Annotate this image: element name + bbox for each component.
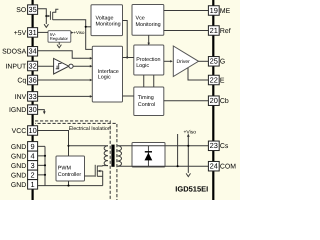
wire GND pin 3 stub [38, 164, 45, 166]
node GND bus dots [44, 155, 46, 157]
svg-text:Logic: Logic [98, 74, 111, 80]
svg-text:19: 19 [210, 6, 218, 15]
svg-text:21: 21 [210, 26, 218, 35]
transformer T1 secondary winding [118, 146, 122, 166]
svg-text:GND: GND [11, 172, 26, 179]
transistor Q1 (SO status MOSFET) [50, 9, 58, 20]
svg-text:23: 23 [210, 141, 218, 150]
svg-text:Controller: Controller [58, 172, 82, 178]
left pin rail (thick bus) [31, 0, 33, 200]
svg-text:3: 3 [31, 161, 35, 170]
diode D1 (rectifier) [145, 146, 153, 166]
svg-text:COM: COM [220, 164, 236, 171]
svg-text:+Viso: +Viso [73, 30, 85, 35]
regulator +Viso output arrow [71, 32, 73, 34]
box rectifier enclosure [132, 143, 165, 168]
svg-text:PWM: PWM [58, 165, 72, 171]
svg-text:35: 35 [28, 5, 36, 14]
pin 34 SDOSA [2, 47, 38, 57]
pin 23 Cs [208, 141, 228, 151]
svg-text:+5V: +5V [14, 30, 27, 37]
inverter U9 (Schmitt trigger) [54, 58, 74, 74]
wire GND bus vertical [44, 146, 46, 185]
wire +5V pin to regulator [38, 31, 48, 33]
svg-text:SDOSA: SDOSA [2, 49, 27, 56]
svg-text:IGD515EI: IGD515EI [175, 185, 208, 194]
transformer T1 core [111, 145, 114, 167]
wire junction to transformer primary top [69, 145, 109, 147]
pin 30 IGND [9, 105, 38, 115]
svg-text:20: 20 [210, 96, 218, 105]
box U3 Interface Logic [92, 46, 122, 102]
wire Interface Logic to Protection Logic [123, 57, 134, 59]
pin 22 E [208, 75, 225, 85]
svg-text:30: 30 [28, 105, 36, 114]
svg-text:24: 24 [210, 162, 218, 171]
wire Protection Logic to Driver [164, 60, 172, 62]
right pin rail (thick bus) [212, 0, 214, 200]
box U6 PWM Controller [56, 156, 85, 181]
svg-text:Monitoring: Monitoring [96, 21, 121, 27]
wire Q1 to Voltage Monitoring and Interface Logic [53, 20, 93, 50]
svg-text:SO: SO [16, 7, 27, 14]
svg-text:E: E [220, 77, 225, 84]
pin 25 G [208, 57, 225, 67]
svg-text:GND: GND [11, 144, 26, 151]
wire SO pin to Q1 [38, 9, 47, 24]
pin 21 Ref [208, 26, 230, 36]
svg-text:+Viso: +Viso [184, 129, 197, 135]
wire Cq pin to Interface Logic [38, 79, 91, 81]
wire secondary top / Cs rail to pin 23 [118, 145, 209, 147]
wire secondary bottom / COM rail to pin 24 [118, 165, 209, 167]
wire Vce Monitoring to pin 19 ME [164, 10, 209, 12]
svg-text:Timing: Timing [138, 95, 154, 101]
wire GND pin 9 stub [38, 145, 45, 147]
box U5 Timing Control [134, 87, 164, 116]
box U2 Vce Monitoring [132, 5, 164, 36]
wire INPUT pin to inverter [38, 65, 54, 67]
svg-text:Logic: Logic [136, 63, 149, 69]
wire PWM Controller to Q2 gate [85, 175, 95, 177]
svg-text:INV: INV [15, 94, 27, 101]
svg-text:22: 22 [210, 75, 218, 84]
svg-text:Monitoring: Monitoring [136, 22, 161, 28]
pin 1 GND [11, 180, 38, 190]
pin 20 Cb [208, 96, 228, 106]
pin 31 +5V [14, 28, 38, 38]
wire GND pin 2 stub [38, 174, 45, 176]
svg-text:25: 25 [210, 57, 218, 66]
pin 24 COM [208, 161, 236, 171]
wire Protection Logic to Timing Control (left link) [143, 75, 145, 87]
node PWM ground junction [67, 185, 69, 187]
pin 32 INPUT [6, 61, 38, 71]
node +Viso Cs junction [187, 145, 189, 147]
wire PWM Controller ground stub [68, 181, 70, 186]
op-amp U8 Driver triangle [173, 46, 198, 77]
node stub COM junction [177, 165, 179, 167]
pin 33 INV [15, 92, 38, 102]
svg-text:33: 33 [28, 92, 36, 101]
pin 35 SO [16, 5, 37, 15]
node VCC primary junction [67, 145, 69, 147]
isolation boundary dashed line A [35, 121, 110, 200]
node VM-IL-PL junction [126, 56, 128, 58]
svg-text:Driver: Driver [177, 59, 191, 65]
svg-text:Control: Control [138, 102, 155, 108]
svg-text:Cq: Cq [17, 77, 26, 84]
svg-text:G: G [220, 59, 225, 66]
pin 36 Cq [17, 75, 37, 85]
svg-text:2: 2 [31, 170, 35, 179]
svg-text:10: 10 [28, 126, 36, 135]
svg-text:IGND: IGND [9, 107, 26, 114]
svg-text:GND: GND [11, 153, 26, 160]
svg-text:Ref: Ref [220, 28, 231, 35]
node Q1 gate junction [45, 15, 47, 17]
wire Voltage Monitoring to Protection Logic [123, 21, 128, 58]
transistor Q2 (chopper MOSFET) [95, 165, 108, 186]
node tap junction [85, 26, 87, 28]
wire INV pin to Interface Logic [38, 95, 91, 97]
wire Driver to pin 22 E [188, 68, 208, 80]
svg-text:31: 31 [28, 28, 36, 37]
wire inverter to Interface Logic [73, 65, 91, 67]
wire GND pin 4 stub [38, 155, 45, 157]
svg-text:9: 9 [31, 142, 35, 151]
svg-text:1: 1 [31, 180, 35, 189]
svg-text:36: 36 [28, 75, 36, 84]
svg-text:Regulator: Regulator [50, 36, 69, 41]
box U1 Voltage Monitoring [91, 5, 123, 36]
wire Interface Logic to Timing Control [123, 95, 134, 97]
wire SDOSA pin to Interface Logic [38, 51, 91, 59]
svg-text:32: 32 [28, 61, 36, 70]
wire VCC pin to PWM Controller and transformer [38, 131, 69, 157]
wire node to Q1 gate [46, 15, 49, 17]
wire Driver to pin 25 G [199, 60, 209, 62]
svg-text:Vce: Vce [136, 16, 145, 22]
wire Timing Control to pin 20 Cb [164, 100, 209, 102]
wire Vce Monitoring to pin 21 Ref [164, 30, 209, 32]
svg-text:VCC: VCC [12, 128, 27, 135]
ground open arrow under Q1 gate line [44, 24, 48, 27]
pin 4 GND [11, 151, 38, 161]
pin 10 VCC [12, 126, 38, 136]
svg-text:GND: GND [11, 182, 26, 189]
pin 3 GND [11, 161, 38, 171]
svg-text:34: 34 [28, 47, 36, 56]
svg-text:Cb: Cb [220, 98, 229, 105]
svg-text:INPUT: INPUT [6, 63, 27, 70]
wire tap to Voltage Monitoring [86, 26, 91, 28]
transformer T1 primary winding [104, 146, 108, 166]
open arrow down (secondary side further supply) [186, 173, 190, 176]
wire GND pin 1 / bottom ground rail [38, 185, 103, 187]
pin 9 GND [11, 142, 38, 152]
wire +Viso arrow line on Cs [187, 135, 189, 173]
svg-text:Electrical Isolation: Electrical Isolation [69, 126, 111, 132]
box U4 Protection Logic [134, 45, 164, 75]
svg-text:ME: ME [220, 8, 231, 15]
wire +Viso reference stub to COM [177, 134, 179, 166]
pin 19 ME [208, 6, 230, 16]
pin 2 GND [11, 170, 38, 180]
ground open arrow under regulator [58, 42, 60, 45]
isolation boundary dashed line B [35, 123, 117, 200]
box U7 5V-Regulator [48, 31, 71, 43]
wire Vce Monitoring to Protection Logic [148, 35, 150, 44]
wire Protection Logic to Timing Control (right link) [153, 75, 155, 87]
svg-text:Cs: Cs [220, 143, 229, 150]
svg-text:4: 4 [31, 151, 35, 160]
wire IGND pin stub with arrow [38, 110, 45, 112]
svg-text:GND: GND [11, 163, 26, 170]
